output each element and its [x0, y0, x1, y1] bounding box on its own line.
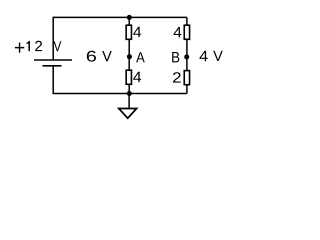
label 4 of 4 V [200, 51, 208, 61]
junction dot top (branch A / top rail) [127, 15, 132, 20]
junction dot bottom (branch A / bottom rail) [127, 91, 132, 96]
wire branch B vertical [186, 17, 188, 93]
wire ground stub [128, 94, 130, 109]
wire branch A vertical [128, 17, 130, 93]
label node B [172, 52, 179, 62]
label 6 of 6 V [87, 51, 96, 62]
resistor R3 value 4 (branch B top) [184, 25, 189, 39]
value 2 of R4 [173, 72, 181, 82]
resistor R4 value 2 (branch B bottom) [184, 71, 189, 85]
label plus of +12 V [15, 43, 24, 53]
wire bottom rail [53, 66, 187, 94]
value 4 of R3 [174, 27, 182, 37]
label V of +12 V [54, 41, 62, 51]
label digit 1 of +12 V [26, 41, 30, 51]
node B dot [184, 54, 189, 59]
resistor R1 value 4 (branch A top) [126, 25, 131, 39]
battery V1 [34, 60, 72, 66]
wire top rail [53, 17, 187, 60]
ground [119, 109, 137, 119]
label V of 6 V [102, 51, 112, 61]
label V of 4 V [213, 51, 223, 61]
label node A [136, 52, 145, 62]
resistor R2 value 4 (branch A bottom) [126, 70, 131, 84]
label digit 2 of +12 V [35, 41, 42, 51]
value 4 of R1 [133, 27, 141, 37]
value 4 of R2 [133, 72, 141, 82]
node A dot [127, 54, 132, 59]
